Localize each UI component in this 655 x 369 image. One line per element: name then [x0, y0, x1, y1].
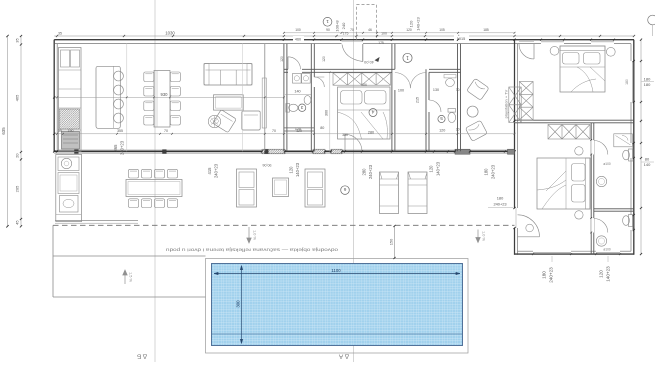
kitchen sink hatch — [60, 109, 80, 129]
bath top sink — [596, 176, 606, 186]
wc 5 door arc — [429, 100, 440, 112]
svg-text:175: 175 — [378, 41, 384, 45]
svg-text:120: 120 — [439, 129, 445, 133]
pool dim 300 — [241, 266, 243, 344]
svg-text:4: 4 — [371, 109, 374, 115]
svg-text:ø100: ø100 — [603, 162, 610, 166]
svg-text:175: 175 — [343, 31, 349, 35]
hall east wall — [425, 69, 427, 151]
room circle 1 top — [323, 17, 332, 26]
sofa — [204, 64, 252, 86]
section line A-A — [353, 0, 355, 362]
bed 2 — [537, 158, 590, 209]
svg-text:120: 120 — [599, 270, 604, 278]
terrace chairs bottom — [129, 199, 139, 208]
TV cabinet — [262, 78, 266, 128]
svg-text:Δ Б: Δ Б — [137, 353, 147, 360]
svg-text:240+23: 240+23 — [490, 164, 495, 179]
playroom wardrobe — [509, 87, 521, 123]
svg-text:1: 1 — [406, 54, 409, 60]
svg-text:240+23: 240+23 — [119, 140, 124, 155]
svg-text:240: 240 — [341, 22, 346, 29]
slope arrow 1.0% right — [476, 230, 480, 243]
playroom chair 1 — [467, 78, 490, 100]
pool lane line — [212, 333, 462, 335]
pool dim 1100 — [214, 273, 460, 275]
svg-text:180: 180 — [484, 168, 489, 176]
playroom table — [467, 106, 478, 117]
svg-text:90,06: 90,06 — [263, 163, 272, 167]
svg-text:35: 35 — [15, 38, 20, 43]
svg-text:240+23: 240+23 — [493, 201, 506, 206]
dim 150 terrace to pool — [394, 226, 396, 258]
column 3 — [265, 150, 269, 154]
svg-text:130: 130 — [433, 88, 439, 92]
svg-text:ø100: ø100 — [603, 248, 610, 252]
left dim line overall — [7, 36, 9, 226]
svg-text:140+23: 140+23 — [435, 161, 440, 176]
interior dim line — [54, 133, 514, 135]
bath top vanity — [614, 134, 633, 147]
section label B — [137, 353, 147, 360]
hall wall horizontal — [284, 68, 288, 70]
svg-text:190: 190 — [68, 129, 74, 133]
bedroom 4 door arc — [344, 134, 346, 151]
kitchen stove — [62, 132, 80, 150]
bed 1 — [560, 46, 605, 92]
wing top wall ticks — [540, 39, 615, 41]
bath strip west wall — [590, 123, 592, 254]
bedroom divider wall — [515, 119, 634, 121]
wing east wall ticks — [633, 60, 635, 231]
svg-text:1,0 %: 1,0 % — [253, 230, 257, 240]
toilet bath3 — [286, 104, 290, 113]
note text rotated — [165, 248, 338, 253]
dark block wing south junction — [508, 149, 515, 154]
top small dims — [293, 36, 304, 42]
nightstand bottom — [575, 211, 583, 219]
room circle 4 — [369, 109, 377, 117]
svg-text:6: 6 — [343, 186, 346, 192]
wing west wall ticks — [513, 120, 515, 229]
chaise — [242, 111, 260, 130]
svg-text:46: 46 — [368, 28, 372, 32]
entry door opening — [342, 41, 364, 43]
svg-text:70: 70 — [164, 129, 168, 133]
exterior wall top — [54, 39, 634, 41]
bath strip divider wall — [594, 208, 634, 210]
svg-text:120: 120 — [409, 20, 414, 27]
washing machines — [293, 74, 302, 84]
svg-text:180: 180 — [644, 82, 651, 87]
column 1 — [75, 150, 79, 154]
south wall junction ticks — [56, 150, 516, 152]
svg-text:120: 120 — [322, 56, 326, 62]
wall east of bath 3 — [310, 44, 312, 152]
wing east window 2 — [631, 143, 633, 158]
pool deck outline — [206, 259, 469, 354]
grid bubble top right — [648, 15, 655, 25]
wall west of playroom — [457, 44, 459, 152]
nightstand left — [550, 46, 559, 55]
outdoor sofa 2 — [305, 169, 325, 207]
svg-text:1: 1 — [326, 18, 329, 24]
svg-text:3: 3 — [300, 105, 303, 110]
svg-text:Δ A: Δ A — [338, 353, 349, 360]
svg-text:180: 180 — [625, 79, 629, 85]
svg-text:70: 70 — [350, 28, 354, 32]
wardrobe bedroom 2 — [548, 125, 590, 140]
terrace table — [126, 180, 182, 197]
svg-text:240+23: 240+23 — [368, 164, 373, 179]
swimming pool water — [212, 264, 463, 346]
bath bottom toilet — [629, 215, 634, 227]
svg-text:100: 100 — [381, 31, 387, 35]
sun lounger 2 — [408, 172, 427, 214]
svg-text:playstation + TV: playstation + TV — [504, 89, 509, 118]
armchair rotated — [213, 110, 237, 133]
svg-text:240+23: 240+23 — [549, 267, 554, 283]
svg-text:280: 280 — [361, 168, 366, 176]
svg-text:140: 140 — [644, 162, 651, 167]
bedroom 2 door arc — [518, 236, 540, 238]
wing west door opening — [515, 208, 517, 228]
section label A — [338, 353, 349, 360]
svg-text:355: 355 — [117, 129, 123, 133]
svg-text:635: 635 — [1, 127, 6, 135]
wing east wall — [633, 40, 635, 255]
sink bath3 — [304, 96, 311, 105]
svg-text:40,00: 40,00 — [363, 60, 374, 65]
wardrobe bedroom 1 — [519, 82, 533, 121]
terrace edge line — [53, 255, 206, 257]
terrace bottom line — [53, 296, 206, 298]
wing east window 1 — [631, 61, 633, 102]
paved edge at outdoor kitchen — [55, 220, 138, 222]
svg-text:35: 35 — [58, 31, 62, 35]
svg-text:70: 70 — [456, 88, 460, 92]
svg-text:35: 35 — [58, 129, 62, 133]
south glass wall — [54, 150, 514, 152]
dining table — [154, 71, 170, 128]
entry door arc — [362, 44, 364, 62]
wing south window 1 — [533, 252, 571, 254]
svg-text:70: 70 — [272, 129, 276, 133]
exterior wall left — [53, 40, 55, 152]
right dim line — [640, 40, 642, 254]
svg-text:1,0 %: 1,0 % — [482, 231, 486, 241]
svg-text:380: 380 — [342, 133, 348, 137]
svg-text:180: 180 — [542, 271, 547, 279]
svg-text:100: 100 — [295, 28, 301, 32]
svg-text:45: 45 — [15, 220, 20, 225]
svg-text:1100: 1100 — [331, 268, 341, 273]
svg-text:140+23: 140+23 — [416, 17, 421, 31]
wing south window 2 — [596, 252, 620, 254]
nightstand right — [606, 47, 615, 56]
svg-text:300: 300 — [325, 110, 329, 116]
wing west wall — [514, 40, 516, 208]
svg-text:300: 300 — [235, 300, 240, 308]
bath bottom sink — [596, 236, 606, 246]
bath 3 door arc — [314, 77, 324, 87]
outdoor table — [273, 178, 289, 197]
dining chairs left — [144, 72, 154, 82]
svg-text:120: 120 — [406, 28, 412, 32]
wing south wall — [515, 253, 634, 255]
storage door arc — [287, 57, 289, 70]
wc5 toilet — [448, 109, 456, 113]
sun lounger 1 — [380, 172, 399, 214]
roof overhang dashed line — [53, 224, 515, 226]
svg-text:140+23: 140+23 — [606, 266, 611, 282]
svg-text:120: 120 — [280, 56, 284, 62]
plant — [208, 115, 220, 127]
nightstand top — [575, 147, 583, 155]
masonry sill hatch 3 — [331, 149, 342, 154]
bedroom 2 lamp — [526, 224, 534, 232]
terrace chairs top — [129, 169, 139, 178]
top wall junction ticks — [283, 39, 516, 41]
svg-text:120: 120 — [288, 166, 293, 174]
room circle 6 — [341, 186, 350, 195]
svg-text:185: 185 — [483, 28, 489, 32]
wardrobe bedroom 4 — [333, 73, 391, 85]
svg-text:120: 120 — [296, 129, 302, 133]
TV wall line — [264, 44, 266, 152]
slope arrow 1.0% left — [247, 227, 251, 243]
level mark 90 — [263, 163, 272, 167]
wall east of bedroom 4 — [391, 44, 393, 152]
bath strip ticks — [590, 139, 592, 233]
svg-text:140: 140 — [294, 90, 300, 94]
room circle 5 — [438, 115, 445, 122]
bath3 dim 140 — [285, 93, 311, 95]
svg-text:140+23: 140+23 — [295, 162, 300, 177]
left dim line segments — [20, 36, 22, 226]
coffee table — [214, 95, 244, 110]
wall west of bath 3 — [283, 44, 285, 152]
svg-text:460: 460 — [295, 37, 301, 41]
svg-text:120: 120 — [429, 165, 434, 173]
svg-text:1,5 %: 1,5 % — [129, 272, 133, 282]
svg-text:20: 20 — [15, 153, 20, 158]
svg-text:odvodnja objekta — sačuvana re: odvodnja objekta — sačuvana refleksija t… — [165, 248, 338, 253]
svg-text:5: 5 — [440, 116, 443, 121]
svg-text:30: 30 — [456, 127, 460, 131]
section line B-B — [154, 0, 156, 362]
svg-text:205: 205 — [15, 185, 20, 192]
wc5 sink — [446, 79, 455, 87]
bath top toilet — [629, 149, 634, 161]
wing top wall window 1 — [541, 43, 564, 45]
entry level text — [363, 60, 374, 65]
svg-text:465: 465 — [15, 94, 20, 101]
wing top wall window 2 — [591, 43, 614, 45]
bath bottom door arc — [594, 219, 608, 233]
svg-text:100: 100 — [398, 89, 404, 93]
top dim line — [54, 35, 634, 37]
bed 4 — [338, 87, 391, 139]
dining chairs right — [170, 72, 180, 82]
left wall ticks — [53, 96, 55, 152]
entry canopy dashed — [357, 5, 377, 40]
bath 3 niche wall — [284, 127, 314, 129]
masonry sill hatch 4 — [455, 149, 470, 154]
glass joint line — [126, 44, 128, 152]
bedroom 1 door arc — [519, 41, 534, 43]
room circle 1 — [403, 53, 412, 62]
wing east window 3 — [631, 215, 633, 230]
outdoor kitchen — [56, 155, 82, 222]
svg-text:80: 80 — [320, 126, 324, 130]
column 2 — [163, 150, 167, 154]
glass joint line 2 — [242, 44, 244, 152]
hall closet arcs — [395, 73, 411, 89]
bath top door arc — [594, 141, 608, 155]
svg-text:365: 365 — [113, 144, 118, 152]
masonry sill hatch 1 — [262, 149, 285, 154]
playroom chair 2 — [465, 120, 487, 141]
slope arrow 1.5% — [123, 270, 127, 284]
svg-text:100+8: 100+8 — [335, 20, 340, 32]
living dim line — [54, 96, 284, 98]
kitchen cabinets — [59, 48, 82, 152]
island stools — [114, 71, 124, 81]
svg-text:180: 180 — [497, 196, 504, 201]
svg-text:386: 386 — [361, 83, 367, 87]
dim 300 line bedroom4 — [329, 72, 331, 151]
svg-text:180: 180 — [644, 76, 651, 81]
svg-text:415: 415 — [207, 167, 212, 175]
svg-text:105: 105 — [439, 28, 445, 32]
room circle 3 — [298, 104, 305, 111]
masonry sill hatch 2 — [313, 149, 325, 154]
svg-text:240+23: 240+23 — [214, 163, 219, 178]
outdoor sofa 1 — [237, 169, 257, 207]
kitchen island — [96, 66, 120, 128]
svg-text:1030: 1030 — [165, 31, 175, 36]
svg-text:930: 930 — [161, 92, 169, 97]
svg-text:90: 90 — [326, 28, 330, 32]
svg-text:215: 215 — [416, 97, 420, 103]
svg-text:150: 150 — [388, 238, 393, 245]
upper dim row middle — [284, 32, 515, 34]
svg-text:80: 80 — [645, 157, 650, 162]
terrace left edge — [52, 225, 54, 297]
